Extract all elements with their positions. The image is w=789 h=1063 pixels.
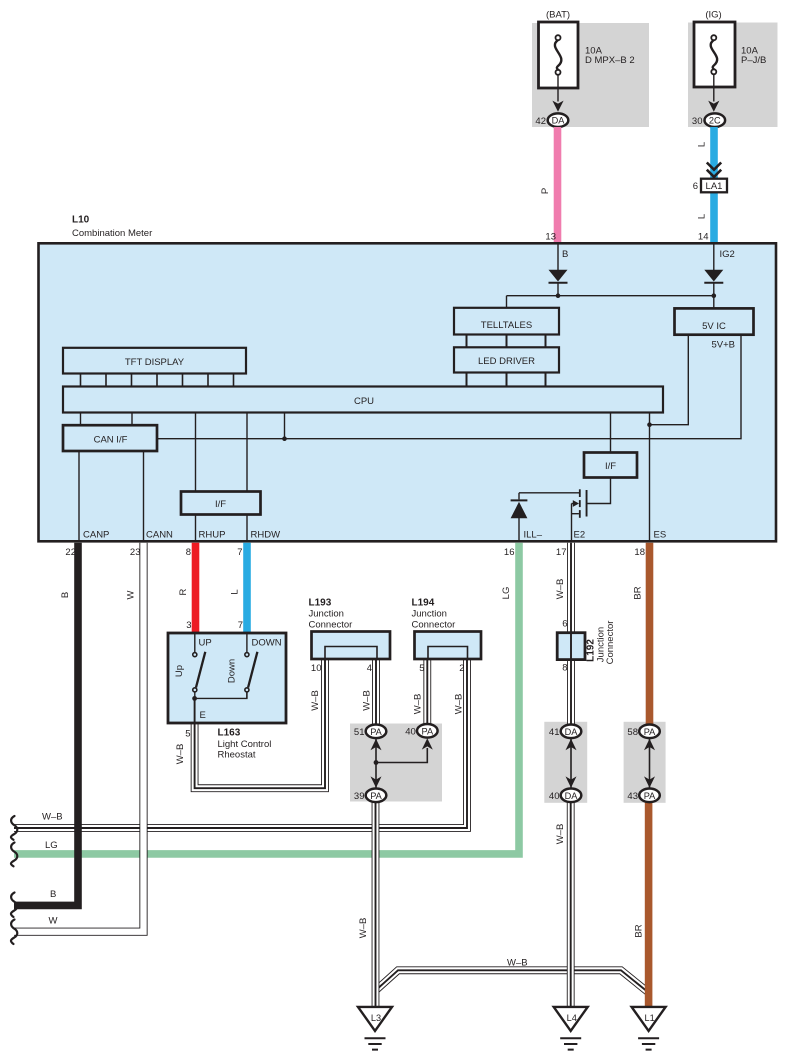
svg-text:CANP: CANP: [83, 530, 109, 541]
svg-text:DA: DA: [552, 116, 566, 126]
svg-text:Junction: Junction: [309, 609, 344, 620]
svg-text:L: L: [230, 589, 241, 594]
junction block gray box (IG side): [688, 23, 778, 128]
svg-text:8: 8: [562, 663, 567, 674]
svg-text:W–B: W–B: [454, 694, 465, 715]
diode D2 (IG2 input): [704, 243, 723, 308]
svg-text:DOWN: DOWN: [252, 638, 282, 649]
svg-text:Connector: Connector: [309, 620, 353, 631]
wire W-B from 39PA to ground L3: [372, 802, 380, 1008]
svg-text:18: 18: [634, 547, 645, 558]
svg-text:41: 41: [549, 727, 560, 738]
fuse 10A P-J/B: [694, 22, 766, 112]
svg-text:L1: L1: [644, 1013, 654, 1023]
svg-text:L3: L3: [371, 1013, 381, 1023]
svg-text:16: 16: [504, 547, 515, 558]
wire L from pin7 to L163: [243, 543, 251, 633]
splice chain 51PA-39PA: [371, 738, 433, 788]
svg-text:PA: PA: [644, 727, 656, 737]
wire 5V IC to ES line: [650, 335, 689, 425]
connector pin 42 DA: [535, 113, 568, 127]
svg-text:P: P: [540, 188, 551, 194]
svg-text:Up: Up: [174, 665, 185, 677]
svg-text:ES: ES: [654, 530, 667, 541]
svg-text:40: 40: [549, 791, 560, 802]
svg-text:W–B: W–B: [507, 958, 528, 969]
svg-text:5V+B: 5V+B: [712, 340, 736, 351]
svg-text:UP: UP: [199, 638, 212, 649]
wire CPU to I/F2: [610, 413, 612, 453]
svg-text:DA: DA: [565, 791, 579, 801]
wire W-B branch to ground L1: [375, 970, 649, 992]
svg-text:CPU: CPU: [354, 396, 374, 407]
wire ES from CPU to pin 18: [649, 413, 651, 542]
connector oval 40 DA: [549, 789, 581, 803]
svg-text:PA: PA: [422, 726, 434, 736]
connector oval 40 PA: [405, 724, 437, 738]
svg-text:10: 10: [311, 663, 322, 674]
svg-text:I/F: I/F: [215, 499, 226, 510]
splice chevrons: [707, 163, 721, 177]
svg-text:5: 5: [185, 729, 190, 740]
node on bus: [282, 436, 287, 441]
combination meter L10 box: [39, 243, 777, 541]
svg-text:8: 8: [186, 547, 191, 558]
svg-text:2: 2: [459, 663, 464, 674]
svg-text:39: 39: [354, 791, 365, 802]
svg-text:RHDW: RHDW: [251, 530, 281, 541]
svg-text:L10: L10: [72, 215, 90, 226]
svg-text:4: 4: [367, 663, 372, 674]
diode D3 (ILL-): [511, 493, 528, 542]
node E: [192, 696, 197, 701]
wire D3 to Q1 gate: [519, 492, 579, 494]
diode D1 (B input): [549, 243, 568, 295]
connector oval 51 PA: [354, 725, 386, 739]
svg-text:6: 6: [693, 181, 698, 192]
svg-text:Down: Down: [227, 659, 238, 683]
splice chain 58PA-43PA: [644, 739, 655, 788]
svg-text:Rheostat: Rheostat: [218, 750, 256, 761]
wire W-B from L194 pin2 to left edge: [14, 659, 467, 828]
svg-text:Connector: Connector: [412, 620, 456, 631]
svg-text:3: 3: [186, 620, 191, 631]
svg-text:I/F: I/F: [605, 461, 616, 472]
transistor Q1: [572, 489, 588, 541]
node at D2: [712, 293, 717, 298]
connector 6 LA1: [693, 179, 727, 193]
svg-text:42: 42: [535, 116, 546, 127]
svg-text:Light Control: Light Control: [218, 739, 272, 750]
block I/F (rheostat): [181, 492, 261, 515]
svg-text:PA: PA: [644, 791, 656, 801]
gray box PA splice group: [350, 724, 442, 802]
svg-text:7: 7: [237, 547, 242, 558]
junction connector L194: [415, 632, 482, 660]
switch DOWN: [245, 633, 258, 698]
wire diode bus: [507, 295, 714, 297]
ticks TELLTALES to LED DRIVER: [467, 335, 546, 348]
block TELLTALES: [454, 308, 559, 335]
svg-text:PA: PA: [370, 791, 382, 801]
wires CPU to CAN I/F: [81, 413, 133, 426]
svg-text:W: W: [49, 916, 58, 927]
junction connector L192: [557, 633, 585, 660]
svg-text:W–B: W–B: [555, 579, 566, 600]
wire W from pin23 to left edge: [14, 543, 144, 932]
block I/F (illumination): [584, 453, 637, 478]
wire BR from pin18 to 58PA: [646, 543, 654, 725]
block CAN I/F: [63, 425, 157, 451]
svg-text:58: 58: [627, 727, 638, 738]
svg-text:DA: DA: [565, 727, 579, 737]
wire W-B from 40DA to ground L4: [567, 802, 575, 1008]
block 5V IC: [675, 308, 754, 334]
wire L (blue) to LA1: [710, 127, 718, 244]
gray box DA splice group: [544, 722, 587, 803]
wire I/F2 to Q1 drain: [588, 478, 611, 504]
svg-text:W–B: W–B: [310, 690, 321, 711]
block CPU: [63, 387, 663, 413]
svg-text:Connector: Connector: [605, 621, 616, 665]
svg-text:TELLTALES: TELLTALES: [481, 320, 532, 331]
switch UP: [193, 633, 206, 698]
junction connector L193: [312, 632, 391, 660]
wire B from pin22 to left edge: [14, 543, 78, 906]
svg-text:30: 30: [692, 116, 703, 127]
svg-text:BR: BR: [634, 924, 645, 937]
svg-text:(BAT): (BAT): [546, 10, 570, 21]
connector oval 58 PA: [627, 725, 659, 739]
svg-text:B: B: [562, 249, 568, 260]
wire switch common: [195, 692, 247, 698]
svg-text:W–B: W–B: [42, 812, 63, 823]
rheostat L163: [168, 633, 286, 723]
svg-text:LED DRIVER: LED DRIVER: [478, 356, 535, 367]
svg-text:W–B: W–B: [362, 690, 373, 711]
block TFT DISPLAY: [63, 348, 246, 374]
block LED DRIVER: [454, 347, 559, 372]
splice chain 41DA-40DA: [566, 739, 577, 788]
svg-text:LG: LG: [45, 840, 58, 851]
svg-text:2C: 2C: [709, 116, 721, 126]
svg-text:W–B: W–B: [175, 744, 186, 765]
fuse 10A D MPX-B 2: [539, 22, 635, 112]
connector oval 43 PA: [627, 789, 659, 803]
wire W-B E2 to 41DA: [567, 543, 575, 725]
svg-text:L: L: [697, 142, 708, 147]
svg-text:L: L: [697, 214, 708, 219]
ground L1: [632, 1007, 666, 1050]
svg-text:W–B: W–B: [555, 824, 566, 845]
svg-text:E: E: [200, 710, 206, 721]
svg-text:LG: LG: [501, 587, 512, 600]
svg-text:CANN: CANN: [146, 530, 173, 541]
node on ES line: [647, 422, 652, 427]
svg-text:17: 17: [556, 547, 567, 558]
continuation hook W: [11, 920, 17, 945]
wire CPU to bus: [284, 413, 286, 439]
wires I/F to pins RHUP RHDW: [196, 515, 248, 542]
svg-text:D MPX–B 2: D MPX–B 2: [585, 55, 635, 66]
svg-text:W: W: [126, 590, 137, 599]
wire W-B from L193 pin4 to 51PA: [372, 659, 380, 725]
junction block gray box (BAT side): [532, 23, 649, 127]
wire P (pink): [554, 127, 562, 244]
wire W-B from L194 pin5 to 40PA: [423, 659, 431, 724]
continuation hook W-B: [11, 816, 17, 840]
svg-text:CAN I/F: CAN I/F: [94, 435, 128, 446]
svg-text:W–B: W–B: [413, 694, 424, 715]
svg-text:IG2: IG2: [720, 249, 735, 260]
svg-text:L4: L4: [567, 1013, 577, 1023]
wire E inside box: [194, 698, 196, 723]
svg-text:14: 14: [698, 232, 709, 243]
svg-text:23: 23: [130, 547, 141, 558]
svg-text:L193: L193: [309, 598, 332, 609]
svg-text:B: B: [50, 889, 56, 900]
svg-text:Combination Meter: Combination Meter: [72, 228, 152, 239]
connector oval 39 PA: [354, 789, 386, 803]
svg-text:43: 43: [627, 791, 638, 802]
svg-text:W–B: W–B: [358, 918, 369, 939]
svg-text:L163: L163: [218, 728, 241, 739]
ground L3: [358, 1007, 392, 1050]
svg-text:LA1: LA1: [706, 181, 723, 192]
continuation hook LG: [11, 843, 17, 867]
svg-text:E2: E2: [574, 530, 586, 541]
svg-text:TFT DISPLAY: TFT DISPLAY: [125, 357, 185, 368]
continuation hook B: [11, 893, 17, 918]
node at D1: [556, 293, 561, 298]
svg-text:13: 13: [545, 232, 556, 243]
wire LG from pin16 to left edge: [14, 543, 519, 854]
svg-text:ILL–: ILL–: [524, 530, 543, 541]
wires CPU to I/F (RHUP RHDW): [196, 413, 248, 492]
svg-text:L194: L194: [412, 598, 435, 609]
svg-text:6: 6: [562, 619, 567, 630]
svg-text:7: 7: [238, 620, 243, 631]
svg-text:(IG): (IG): [705, 10, 721, 21]
wire BR from 43PA to ground L1: [645, 802, 653, 1008]
svg-text:R: R: [178, 588, 189, 595]
svg-text:RHUP: RHUP: [199, 530, 226, 541]
svg-text:51: 51: [354, 727, 365, 738]
wire R from pin8 to L163: [192, 543, 200, 633]
ticks TFT to CPU: [81, 374, 234, 387]
svg-text:PA: PA: [370, 727, 382, 737]
connector pin 30 2C: [692, 113, 725, 127]
wires CAN I/F to pins CANP CANN: [79, 451, 144, 541]
gray box PA splice group right: [624, 722, 666, 803]
wire W-B from L163 E to L193 pin10: [195, 660, 325, 788]
svg-text:5: 5: [419, 663, 424, 674]
svg-text:40: 40: [405, 727, 416, 738]
wire CAN I/F bus line: [157, 335, 741, 439]
ticks LED DRIVER to CPU: [467, 373, 546, 387]
svg-text:BR: BR: [633, 586, 644, 599]
ground L4: [554, 1007, 588, 1050]
svg-text:P–J/B: P–J/B: [741, 55, 766, 66]
svg-text:B: B: [60, 592, 71, 598]
svg-text:5V IC: 5V IC: [702, 321, 726, 332]
svg-text:Junction: Junction: [412, 609, 447, 620]
connector oval 41 DA: [549, 725, 581, 739]
